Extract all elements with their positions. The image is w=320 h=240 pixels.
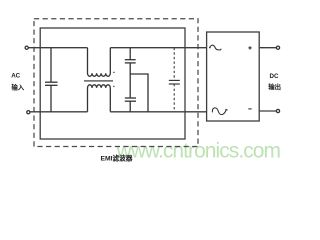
plus label (DC positive): [248, 46, 251, 49]
capacitor C4 (stray capacitance, dashed leads): [169, 48, 180, 112]
svg-text:AC: AC: [11, 73, 20, 80]
AC squiggle symbol (top input): [210, 45, 222, 50]
common-mode choke L1 : core: [84, 80, 113, 82]
minus label (DC negative): [248, 108, 251, 110]
AC input terminal (top, line): [25, 46, 28, 49]
capacitor C2 (upper Y-capacitor): [125, 48, 136, 74]
svg-text:EMI滤波器: EMI滤波器: [101, 153, 133, 162]
wire: top line from choke to power module: [110, 47, 206, 49]
EMI filter dashed enclosure: [34, 19, 198, 147]
wire: bottom line from input terminal to choke: [30, 111, 88, 113]
wire: DC output positive: [259, 47, 276, 49]
svg-text:输入: 输入: [11, 83, 24, 92]
AC squiggle symbol (bottom input): [212, 108, 227, 115]
common-mode choke L1 : top winding: [88, 48, 111, 77]
power module box (AC/DC converter): [207, 32, 260, 121]
DC output terminal (positive): [276, 46, 279, 49]
capacitor C1 (X-capacitor across line): [45, 48, 58, 112]
svg-text:输出: 输出: [268, 82, 281, 91]
choke polarity dot (bottom): [113, 86, 115, 88]
common-mode choke L1 : bottom winding: [88, 85, 111, 112]
svg-text:DC: DC: [270, 73, 279, 80]
wire: Y-cap midpoint to bottom line: [130, 74, 148, 112]
EMI filter inner box: [40, 28, 185, 139]
wire: bottom line from choke to power module: [110, 111, 206, 113]
DC output terminal (negative): [276, 109, 279, 112]
capacitor C3 (lower Y-capacitor): [125, 74, 136, 112]
wire: top line from input terminal to choke: [28, 47, 87, 49]
wire: DC output negative: [259, 110, 276, 112]
choke polarity dot (top): [113, 72, 115, 74]
AC input terminal (bottom, neutral): [27, 111, 30, 114]
